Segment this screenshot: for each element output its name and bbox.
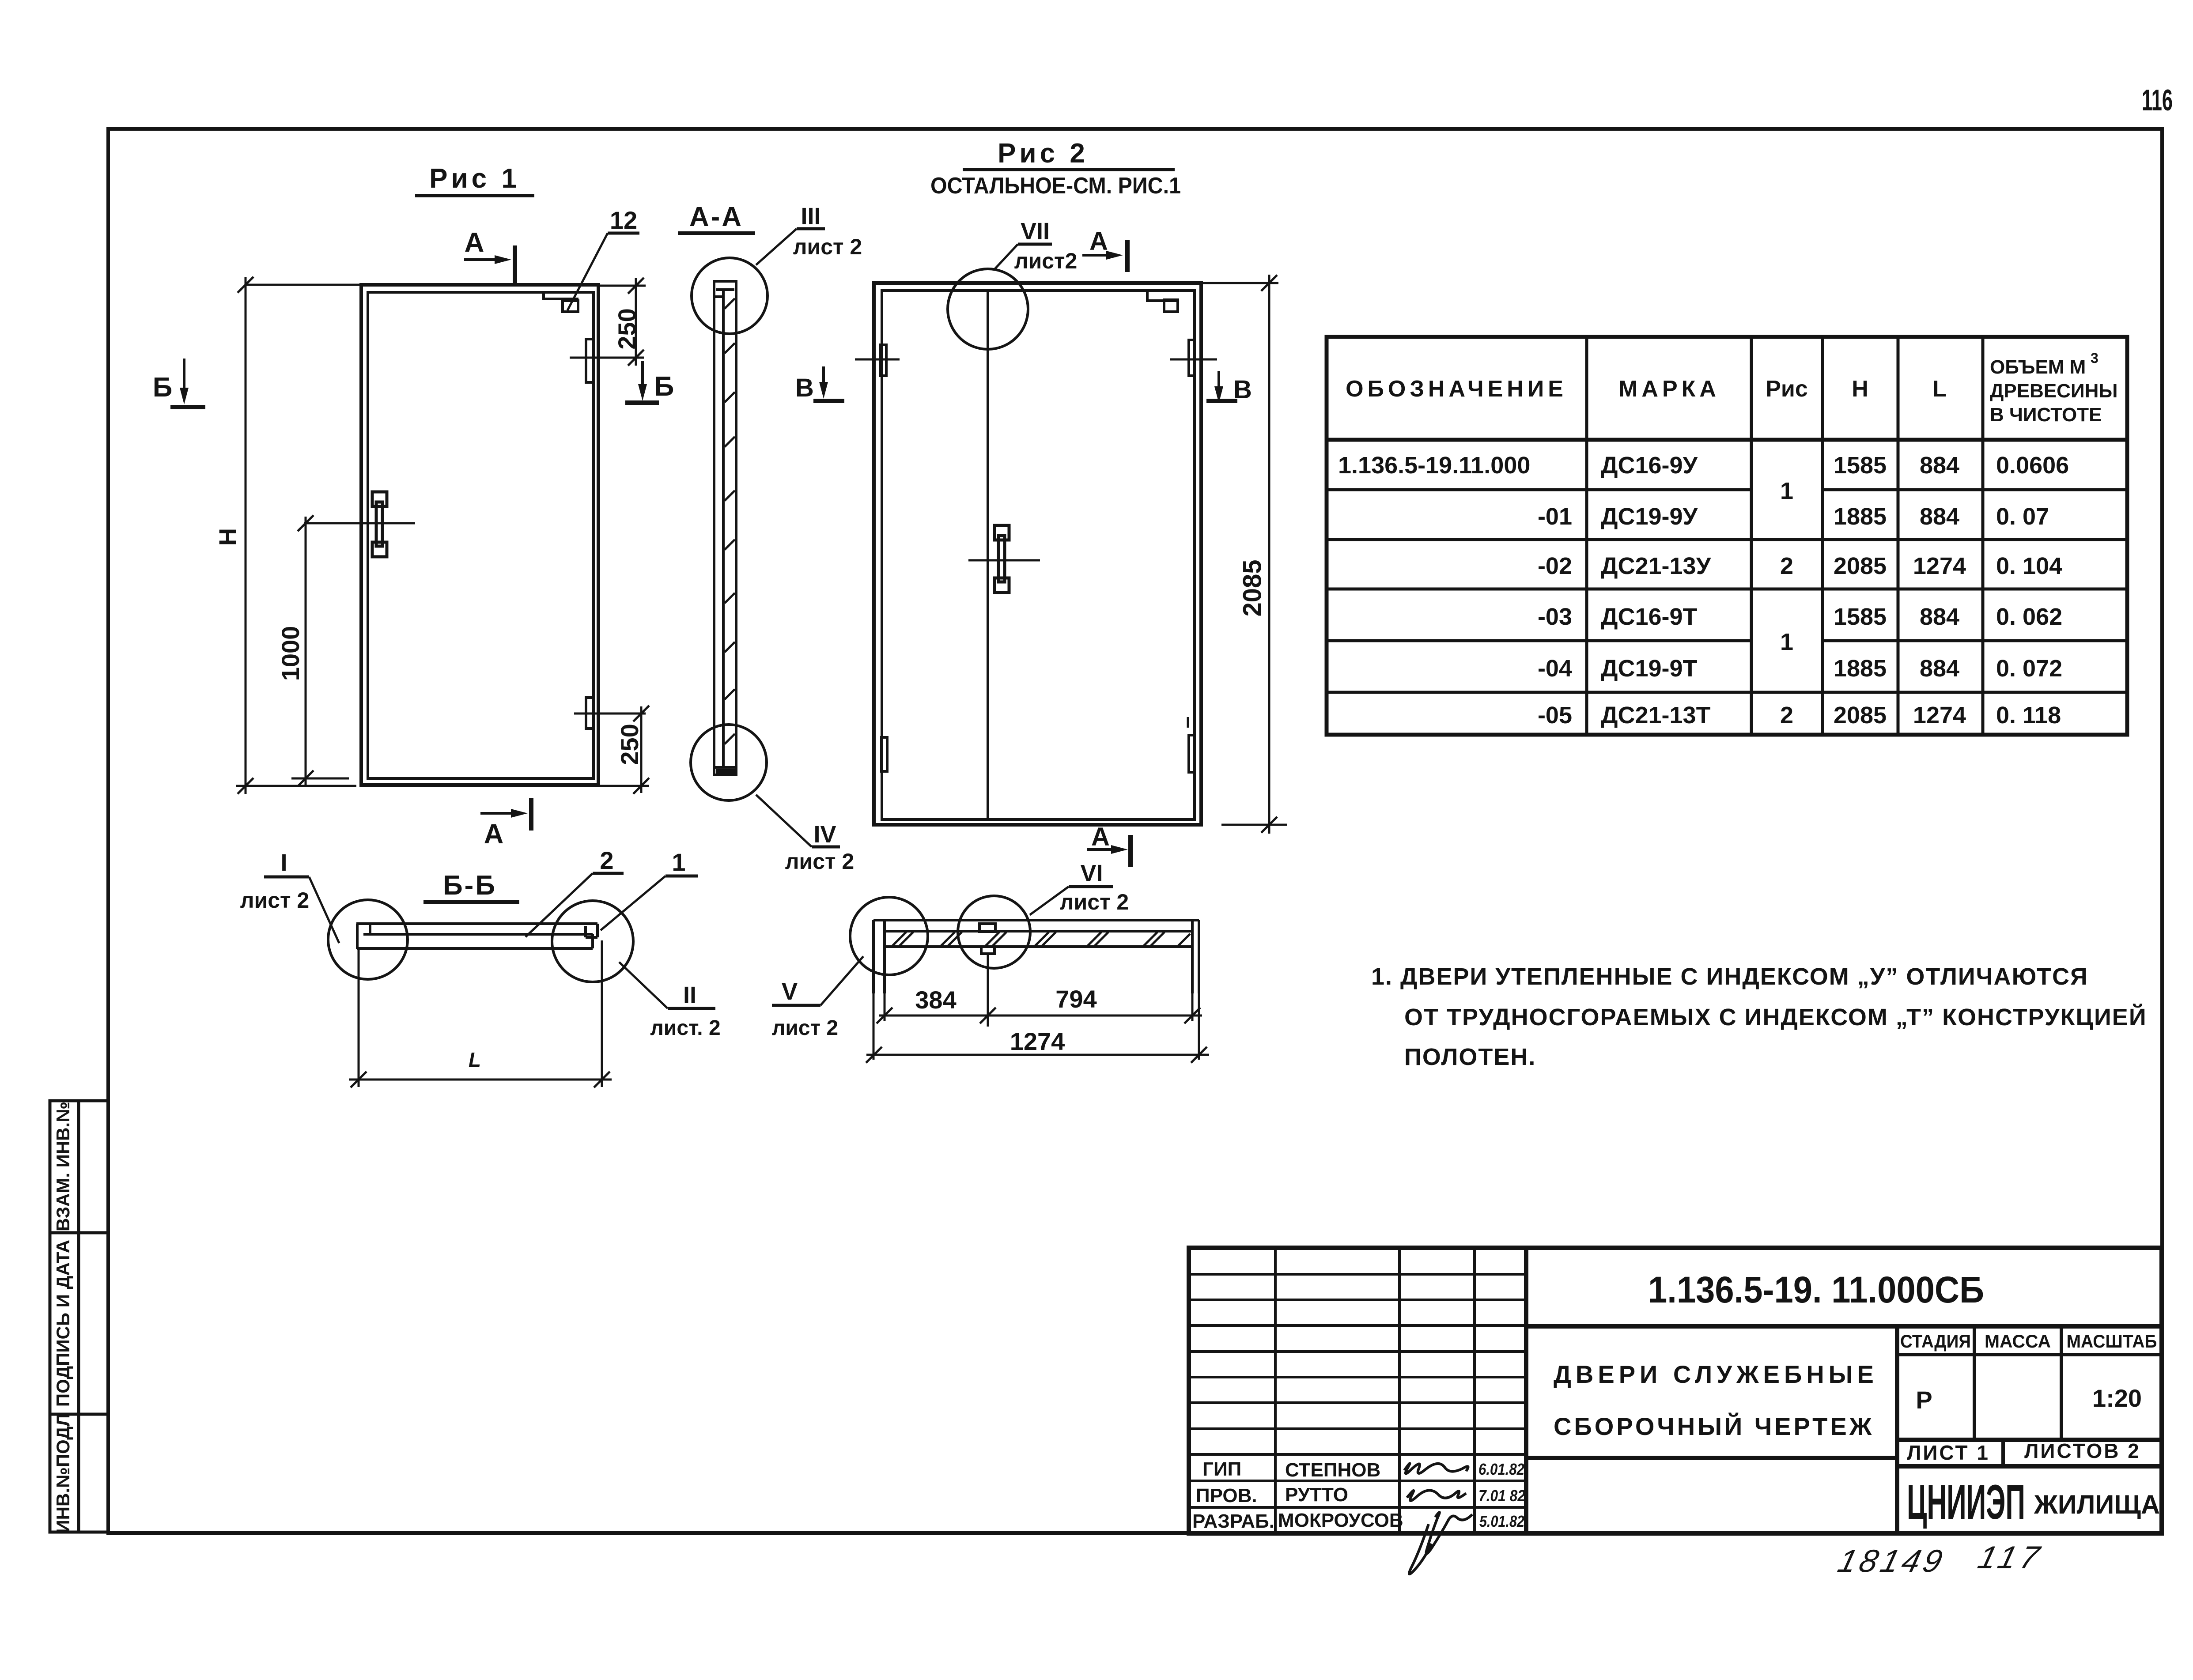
label 1 with leader — [601, 876, 698, 930]
svg-text:-02: -02 — [1538, 553, 1572, 579]
svg-text:ПРОВ.: ПРОВ. — [1196, 1485, 1257, 1506]
svg-text:0. 07: 0. 07 — [1996, 503, 2049, 530]
svg-text:А: А — [1089, 227, 1108, 256]
svg-text:884: 884 — [1920, 604, 1959, 630]
svg-text:МОКРОУСОВ: МОКРОУСОВ — [1278, 1510, 1403, 1531]
svg-text:1274: 1274 — [1913, 553, 1966, 579]
svg-text:1: 1 — [1780, 629, 1793, 655]
label А-А — [689, 202, 743, 232]
bottom threshold mark А-А — [716, 769, 737, 775]
svg-text:МАССА: МАССА — [1985, 1331, 2051, 1352]
hinge bottom-right (Рис 2) — [1189, 735, 1195, 772]
svg-text:1274: 1274 — [1010, 1027, 1065, 1055]
svg-text:884: 884 — [1920, 452, 1959, 479]
svg-text:ДС16-9Т: ДС16-9Т — [1601, 604, 1698, 630]
hinge top-left (Рис 2) — [881, 345, 886, 376]
svg-text:лист 2: лист 2 — [240, 888, 310, 913]
underline of Б-Б — [423, 900, 519, 904]
detail circle VI (centre В-В) — [958, 896, 1030, 968]
svg-text:ОТ ТРУДНОСГОРАЕМЫХ С ИНДЕКС: ОТ ТРУДНОСГОРАЕМЫХ С ИНДЕКСОМ „Т” КОНСТР… — [1404, 1004, 2147, 1031]
section mark А top (Рис 2) — [1082, 240, 1127, 272]
svg-text:ДРЕВЕСИНЫ: ДРЕВЕСИНЫ — [1990, 380, 2117, 402]
label VI лист 2 (points to centre circle) — [1030, 887, 1113, 915]
svg-text:0. 104: 0. 104 — [1996, 553, 2062, 579]
dimension 1274 — [866, 1047, 1209, 1063]
handle centerline (Рис 1) — [304, 522, 415, 525]
label IV лист 2 — [756, 795, 840, 847]
svg-text:ЛИСТОВ 2: ЛИСТОВ 2 — [2024, 1439, 2141, 1462]
svg-text:7.01 82: 7.01 82 — [1478, 1487, 1525, 1505]
leader and label 12 — [567, 233, 639, 310]
dimension L (under Б-Б) — [349, 940, 612, 1087]
svg-text:ДС21-13У: ДС21-13У — [1601, 553, 1712, 579]
svg-text:-04: -04 — [1538, 655, 1572, 682]
extension lines to dimensions (В-В) — [873, 993, 1199, 1060]
svg-text:0. 062: 0. 062 — [1996, 604, 2062, 630]
svg-text:Н: Н — [1852, 376, 1868, 402]
svg-text:ДС16-9У: ДС16-9У — [1601, 452, 1698, 479]
svg-text:1274: 1274 — [1913, 702, 1966, 729]
svg-text:2085: 2085 — [1238, 559, 1267, 616]
row lines (skip Рис column where merged) — [1327, 488, 1751, 491]
box ПОДПИСЬ И ДАТА — [50, 1233, 108, 1414]
stadia massa masshtab — [1900, 1331, 2157, 1464]
svg-text:1585: 1585 — [1834, 604, 1887, 630]
frame border — [108, 129, 2162, 1533]
box ВЗАМ. ИНВ. № — [50, 1101, 108, 1233]
svg-text:-01: -01 — [1538, 503, 1572, 530]
svg-text:ДВЕРИ СЛУЖЕБНЫЕ: ДВЕРИ СЛУЖЕБНЫЕ — [1554, 1360, 1878, 1388]
left grid of title block — [1189, 1248, 1526, 1533]
svg-text:1: 1 — [1780, 478, 1793, 504]
svg-text:5.01.82: 5.01.82 — [1479, 1512, 1524, 1530]
label Б-Б — [443, 870, 497, 901]
svg-text:2: 2 — [1780, 702, 1793, 729]
door frame outer (Рис 2) — [874, 283, 1201, 825]
svg-text:ПОЛОТЕН.: ПОЛОТЕН. — [1404, 1044, 1536, 1070]
svg-text:1585: 1585 — [1834, 452, 1887, 479]
svg-text:1: 1 — [672, 848, 685, 876]
svg-text:II: II — [683, 982, 696, 1008]
svg-text:250: 250 — [616, 724, 643, 765]
svg-text:А: А — [1091, 823, 1110, 851]
svg-text:ГИП: ГИП — [1202, 1458, 1241, 1480]
top hinge (Рис 1) — [586, 339, 593, 382]
door leaf strip (Б-Б) — [356, 924, 597, 949]
svg-text:Рис 1: Рис 1 — [429, 163, 520, 194]
svg-text:лист 2: лист 2 — [772, 1016, 838, 1040]
label 2 with leader — [526, 873, 624, 937]
svg-text:2: 2 — [1780, 553, 1793, 579]
svg-text:Б-Б: Б-Б — [443, 870, 497, 901]
svg-text:884: 884 — [1920, 503, 1959, 530]
centre extension line — [987, 954, 989, 1027]
svg-text:V: V — [782, 978, 798, 1005]
logo ЦНИИЭП жилища — [1907, 1475, 2160, 1529]
svg-text:18149: 18149 — [1834, 1544, 1949, 1579]
svg-text:лист 2: лист 2 — [793, 234, 862, 259]
svg-text:ОБЪЕМ М: ОБЪЕМ М — [1990, 356, 2086, 378]
svg-text:ДС19-9У: ДС19-9У — [1601, 503, 1698, 530]
РАЗРАБ signature tail below frame — [1409, 1524, 1431, 1574]
svg-text:1:20: 1:20 — [2092, 1384, 2142, 1412]
svg-text:СБОРОЧНЫЙ ЧЕРТЕЖ: СБОРОЧНЫЙ ЧЕРТЕЖ — [1554, 1412, 1874, 1440]
svg-text:6.01.82: 6.01.82 — [1478, 1460, 1524, 1478]
svg-text:116: 116 — [2142, 83, 2173, 117]
label Рис 2 — [998, 138, 1089, 169]
svg-text:ЛИСТ 1: ЛИСТ 1 — [1907, 1441, 1990, 1464]
handle centerline (Рис 2) — [968, 559, 1040, 562]
document code — [1648, 1269, 1984, 1310]
hinge top-right (Рис 2) — [1189, 340, 1195, 376]
detail circle II (right end Б-Б) — [552, 901, 633, 982]
svg-text:ПОДПИСЬ И ДАТА: ПОДПИСЬ И ДАТА — [53, 1240, 73, 1407]
label ОСТАЛЬНОЕ-СМ. РИС.1 — [930, 173, 1181, 199]
svg-text:0. 072: 0. 072 — [1996, 655, 2062, 682]
door strip outline (В-В) — [873, 920, 1199, 993]
svg-text:СТЕПНОВ: СТЕПНОВ — [1285, 1459, 1380, 1481]
door leaf inner (Рис 2) — [882, 291, 1195, 819]
svg-text:L: L — [1932, 376, 1947, 402]
box ИНВ. № ПОДЛ — [50, 1414, 108, 1532]
svg-text:IV: IV — [813, 821, 836, 848]
page number 116 — [2142, 83, 2173, 117]
section mark В right — [1206, 371, 1237, 403]
door handle (Рис 1) — [372, 492, 387, 557]
svg-text:VII: VII — [1021, 218, 1050, 245]
section mark А bottom (Рис 2) — [1087, 835, 1131, 867]
detail circle IV (bottom of А-А) — [691, 725, 767, 800]
svg-text:ДС21-13Т: ДС21-13Т — [1601, 702, 1711, 729]
svg-text:Н: Н — [214, 528, 242, 546]
bottom hinge (Рис 1) — [586, 698, 593, 729]
svg-text:III: III — [801, 203, 820, 230]
section mark А top (Рис 1) — [464, 245, 515, 283]
dimension 384 / 794 — [877, 1008, 1202, 1023]
svg-text:ЦНИИЭП: ЦНИИЭП — [1907, 1475, 2025, 1529]
svg-text:1000: 1000 — [276, 626, 304, 681]
svg-text:117: 117 — [1974, 1540, 2047, 1575]
svg-text:1885: 1885 — [1834, 655, 1887, 682]
svg-text:250: 250 — [613, 308, 641, 349]
detail circle I (left end Б-Б) — [328, 900, 408, 979]
svg-text:884: 884 — [1920, 655, 1959, 682]
svg-text:I: I — [280, 849, 287, 876]
svg-text:лист 2: лист 2 — [785, 849, 855, 874]
label VII лист2 — [994, 244, 1052, 270]
svg-text:Рис: Рис — [1766, 376, 1808, 402]
hinge centerline top-right — [1170, 359, 1217, 361]
underline of Рис 1 — [415, 194, 534, 197]
document name — [1554, 1360, 1878, 1440]
dimension 1000 (left, handle height) — [291, 515, 349, 786]
svg-text:794: 794 — [1055, 985, 1096, 1013]
svg-text:-03: -03 — [1538, 604, 1572, 630]
signature squiggles — [1404, 1463, 1472, 1574]
svg-text:2085: 2085 — [1834, 702, 1887, 729]
svg-text:ОБОЗНАЧЕНИЕ: ОБОЗНАЧЕНИЕ — [1346, 376, 1567, 402]
svg-text:лист. 2: лист. 2 — [650, 1016, 720, 1040]
svg-text:1.136.5-19.11.000: 1.136.5-19.11.000 — [1338, 452, 1530, 479]
small mark above bottom-right hinge — [1187, 717, 1189, 728]
label V лист 2 — [772, 956, 863, 1005]
dimension 2085 (right of Рис 2) — [1201, 275, 1287, 834]
svg-text:384: 384 — [915, 986, 956, 1014]
title block right sub-dividers — [1897, 1326, 2162, 1466]
svg-text:-05: -05 — [1538, 702, 1572, 729]
handle (Рис 2, on meeting stile) — [994, 525, 1009, 593]
label III лист 2 — [756, 229, 825, 265]
svg-text:ОСТАЛЬНОЕ-СМ. РИС.1: ОСТАЛЬНОЕ-СМ. РИС.1 — [930, 173, 1181, 199]
hatching of А-А bar — [725, 298, 735, 744]
svg-text:12: 12 — [610, 206, 637, 234]
svg-text:РУТТО: РУТТО — [1285, 1484, 1348, 1506]
svg-text:Р: Р — [1916, 1386, 1932, 1414]
side block: stamp boxes on left margin — [50, 1101, 108, 1532]
dimension H (left, full height) — [236, 277, 361, 794]
svg-text:L: L — [469, 1048, 481, 1071]
svg-text:А: А — [465, 227, 484, 258]
svg-text:А: А — [484, 819, 504, 849]
svg-text:Рис 2: Рис 2 — [998, 138, 1089, 169]
meeting stile detail with handle (В-В centre) — [979, 924, 995, 954]
detail circle V (left end В-В) — [850, 897, 928, 975]
handwritten inventory number 18149 — [1834, 1540, 2047, 1579]
svg-text:А-А: А-А — [689, 202, 743, 232]
dimension 250 top right — [598, 278, 646, 366]
svg-text:1.136.5-19. 11.000СБ: 1.136.5-19. 11.000СБ — [1648, 1269, 1984, 1310]
column lines — [1585, 337, 1588, 735]
table header texts — [1346, 350, 2117, 426]
door leaf inner (Рис 1) — [368, 292, 594, 778]
svg-text:ЖИЛИЩА: ЖИЛИЩА — [2034, 1490, 2160, 1519]
corner step detail top-right (Рис 2) — [1147, 291, 1178, 312]
label Рис 1 — [429, 163, 520, 194]
svg-text:РАЗРАБ.: РАЗРАБ. — [1192, 1510, 1274, 1532]
section mark А bottom (Рис 1) — [480, 798, 531, 831]
hinge bottom-left (Рис 2) — [881, 737, 887, 771]
svg-text:Б: Б — [153, 372, 173, 403]
corner step detail top-right (Рис 1) — [544, 293, 578, 312]
hinge centerline top-left — [855, 359, 900, 361]
svg-text:0. 118: 0. 118 — [1996, 702, 2061, 729]
svg-text:0.0606: 0.0606 — [1996, 452, 2069, 479]
svg-text:В ЧИСТОТЕ: В ЧИСТОТЕ — [1990, 404, 2102, 426]
section bar А-А — [714, 281, 736, 775]
svg-text:ИНВ.№ПОДЛ: ИНВ.№ПОДЛ — [53, 1413, 73, 1533]
svg-text:1. ДВЕРИ УТЕПЛЕННЫЕ С ИНДЕК: 1. ДВЕРИ УТЕПЛЕННЫЕ С ИНДЕКСОМ „У” ОТЛИЧ… — [1371, 963, 2088, 990]
section mark Б left — [170, 359, 205, 407]
svg-text:лист 2: лист 2 — [1060, 890, 1129, 914]
underline of Рис 2 — [963, 168, 1175, 171]
detail circle III (top of А-А) — [692, 258, 768, 334]
svg-text:В: В — [795, 374, 814, 402]
svg-text:VI: VI — [1080, 860, 1103, 887]
svg-text:МАСШТАБ: МАСШТАБ — [2067, 1331, 2157, 1352]
svg-text:1885: 1885 — [1834, 503, 1887, 530]
svg-text:2085: 2085 — [1834, 553, 1887, 579]
table row texts — [1338, 452, 2069, 729]
svg-text:Б: Б — [654, 371, 674, 402]
hatching pairs (В-В leaf) — [892, 932, 1190, 946]
svg-text:ДС19-9Т: ДС19-9Т — [1601, 655, 1698, 682]
section mark В left — [813, 366, 844, 401]
svg-text:СТАДИЯ: СТАДИЯ — [1900, 1331, 1971, 1352]
section mark Б right — [625, 361, 659, 403]
svg-text:лист2: лист2 — [1014, 249, 1078, 273]
hinge centerline top — [570, 357, 644, 359]
door frame outer (Рис 1) — [361, 285, 598, 785]
label I лист 2 — [264, 877, 339, 943]
svg-text:МАРКА: МАРКА — [1618, 376, 1720, 402]
dimension 250 bottom right — [598, 706, 649, 794]
signature rows — [1192, 1458, 1403, 1532]
svg-text:3: 3 — [2091, 350, 2098, 366]
svg-text:В: В — [1233, 375, 1252, 404]
detail circle VII (top centre, Рис 2) — [948, 269, 1028, 349]
label II лист. 2 — [619, 962, 715, 1008]
svg-text:2: 2 — [600, 846, 613, 874]
svg-text:ВЗАМ. ИНВ.№: ВЗАМ. ИНВ.№ — [53, 1102, 73, 1231]
hinge centerline bottom — [574, 713, 646, 715]
meeting stile centerline (Рис 2) — [987, 291, 989, 819]
underline of А-А — [678, 231, 755, 235]
